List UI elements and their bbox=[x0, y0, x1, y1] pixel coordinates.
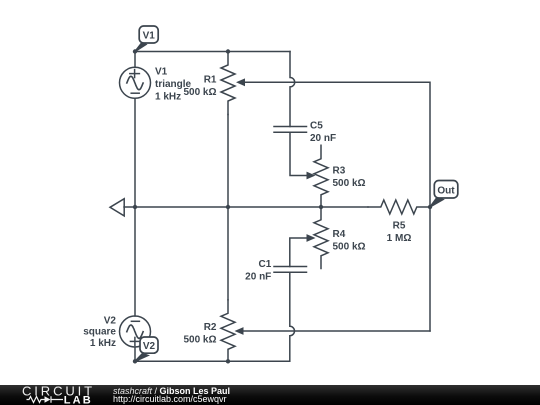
wire R2 wiper to right rail bbox=[244, 330, 431, 332]
wiper arrow R2 bbox=[235, 327, 244, 335]
wire C1 bottom lead with hop over R2 wiper wire, to bottom net bbox=[135, 272, 295, 361]
svg-text:20 nF: 20 nF bbox=[310, 133, 336, 144]
svg-text:square: square bbox=[83, 327, 116, 338]
svg-text:V2: V2 bbox=[104, 316, 117, 327]
wire C5 bottom lead to R3 wiper bbox=[290, 132, 308, 175]
potentiometer R1 bbox=[221, 52, 235, 115]
junction node V1-top bbox=[133, 49, 137, 53]
junction node R1-top bbox=[226, 49, 230, 53]
V2 plus sign bbox=[130, 337, 140, 345]
svg-text:500 kΩ: 500 kΩ bbox=[333, 241, 366, 252]
svg-text:V1: V1 bbox=[143, 31, 156, 42]
capacitor C5 bbox=[274, 127, 307, 133]
node label V2 bbox=[135, 337, 158, 361]
wire R4 wiper to C1 top lead bbox=[290, 238, 308, 267]
potentiometer R4 bbox=[314, 207, 328, 269]
potentiometer R3 bbox=[314, 145, 328, 207]
CircuitLab logo bbox=[20, 385, 120, 405]
svg-text:R4: R4 bbox=[333, 229, 346, 240]
svg-text:500 kΩ: 500 kΩ bbox=[333, 178, 366, 189]
V1 plus sign bbox=[130, 70, 140, 78]
junction node V2-bottom bbox=[133, 359, 137, 363]
svg-text:1 MΩ: 1 MΩ bbox=[387, 233, 412, 244]
voltage source V2 bbox=[120, 316, 151, 347]
resistor R5 bbox=[368, 200, 430, 214]
label R4 value bbox=[333, 229, 366, 253]
potentiometer R2 bbox=[221, 300, 235, 362]
wiper arrow R4 bbox=[307, 234, 316, 242]
svg-text:Out: Out bbox=[437, 185, 455, 196]
V2 minus sign bbox=[131, 320, 139, 322]
V1 sine glyph bbox=[127, 76, 143, 89]
junction node middle-R3R4 bbox=[319, 205, 323, 209]
voltage source V1 leads bbox=[134, 52, 136, 208]
label C1 value bbox=[245, 259, 272, 283]
wire R1 wiper to right rail down to Out bbox=[245, 82, 430, 331]
svg-text:V1: V1 bbox=[155, 67, 168, 78]
svg-text:C1: C1 bbox=[259, 259, 272, 270]
wire R1 bottom to middle net bbox=[227, 115, 229, 208]
V1 minus sign bbox=[131, 92, 139, 94]
voltage source V2 leads bbox=[134, 207, 136, 361]
wire middle net to R5 bbox=[124, 206, 368, 208]
capacitor C1 bbox=[274, 267, 307, 273]
svg-text:LAB: LAB bbox=[64, 395, 93, 405]
wiper arrow R3 bbox=[307, 172, 316, 180]
wire top net V1 bbox=[135, 51, 290, 53]
svg-text:500 kΩ: 500 kΩ bbox=[183, 334, 216, 345]
junction node R2-bottom bbox=[226, 359, 230, 363]
label R3 value bbox=[333, 165, 366, 189]
node label V1 bbox=[135, 26, 158, 52]
svg-text:1 kHz: 1 kHz bbox=[90, 338, 116, 349]
svg-text:R5: R5 bbox=[393, 220, 406, 231]
svg-text:500 kΩ: 500 kΩ bbox=[183, 87, 216, 98]
label R2 value bbox=[183, 322, 216, 346]
voltage source V1 bbox=[120, 67, 151, 98]
junction node ground-left bbox=[133, 205, 137, 209]
svg-text:20 nF: 20 nF bbox=[245, 272, 271, 283]
svg-text:R2: R2 bbox=[204, 322, 217, 333]
svg-text:1 kHz: 1 kHz bbox=[155, 91, 181, 102]
label R1 value bbox=[183, 74, 216, 98]
V2 sine glyph bbox=[127, 325, 143, 338]
wire C5 top lead with hop over R1 wiper wire bbox=[290, 52, 295, 127]
label C5 value bbox=[310, 121, 336, 145]
node label Out bbox=[430, 181, 458, 208]
footer bar bbox=[0, 385, 540, 405]
label V1 value bbox=[155, 67, 192, 103]
junction node middle-R1R2 bbox=[226, 205, 230, 209]
wire middle net to R2 top bbox=[227, 207, 229, 300]
svg-text:R3: R3 bbox=[333, 165, 346, 176]
label R5 value bbox=[387, 220, 412, 244]
footer credit text bbox=[113, 387, 230, 404]
svg-text:V2: V2 bbox=[143, 341, 156, 352]
svg-text:R1: R1 bbox=[204, 74, 217, 85]
wiper arrow R1 bbox=[236, 78, 245, 86]
junction node Out bbox=[428, 205, 432, 209]
svg-text:C5: C5 bbox=[310, 121, 323, 132]
label V2 value bbox=[83, 316, 116, 349]
ground signal triangle bbox=[110, 199, 124, 216]
